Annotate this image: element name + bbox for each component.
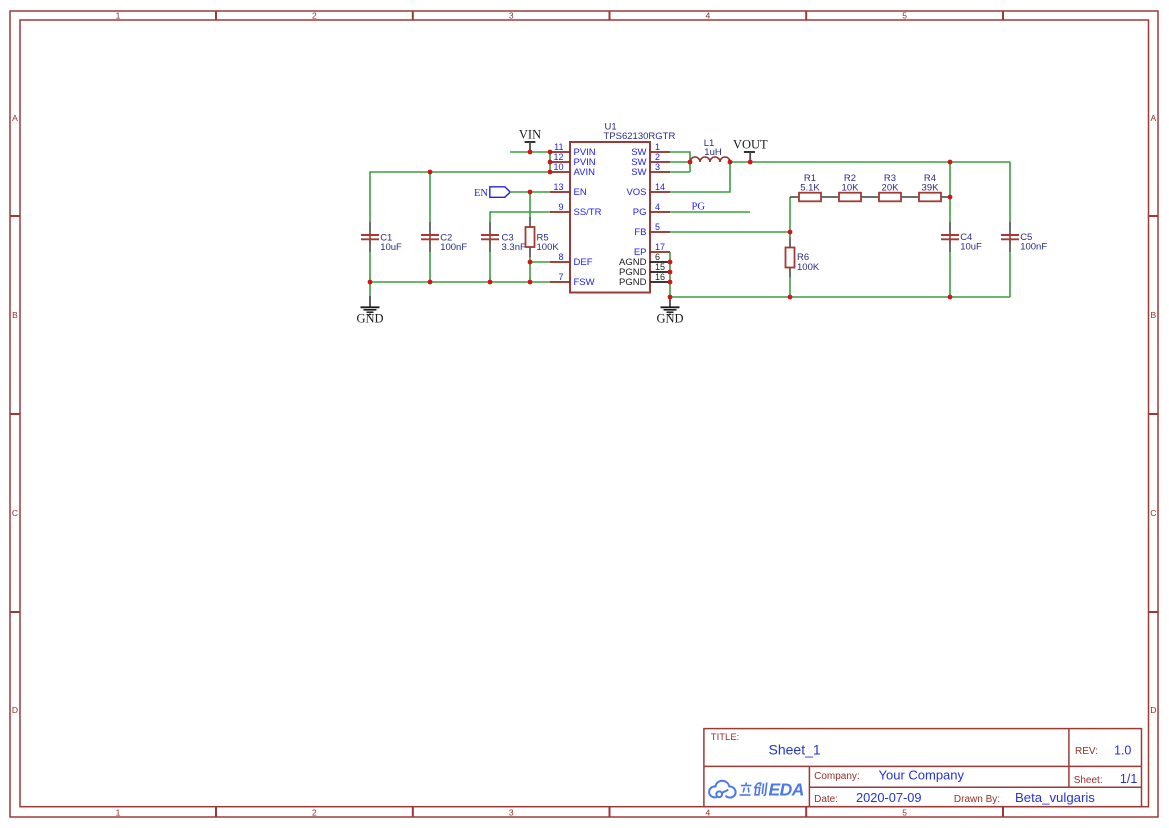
resistor R6 — [786, 232, 820, 297]
capacitor C1 — [361, 222, 402, 253]
svg-text:3: 3 — [509, 11, 514, 21]
svg-text:C: C — [12, 508, 18, 518]
svg-text:20K: 20K — [882, 183, 900, 194]
svg-text:VOS: VOS — [626, 187, 646, 198]
svg-text:12: 12 — [553, 152, 563, 162]
junction pin12 — [548, 160, 553, 165]
svg-text:GND: GND — [356, 312, 383, 326]
capacitor C5 — [1001, 222, 1047, 253]
pin 12 PVIN — [550, 152, 596, 168]
svg-text:PG: PG — [633, 207, 647, 218]
svg-text:FSW: FSW — [574, 277, 595, 288]
wire SW1 to L1 — [670, 152, 690, 172]
svg-text:4: 4 — [706, 11, 711, 21]
svg-text:2: 2 — [312, 807, 317, 817]
svg-text:100nF: 100nF — [440, 242, 467, 253]
capacitor C4 — [941, 222, 982, 253]
svg-text:2: 2 — [655, 152, 660, 162]
wire ground bus left — [370, 281, 550, 283]
wire EN node down to R5 — [529, 192, 531, 217]
svg-text:Beta_vulgaris: Beta_vulgaris — [1015, 790, 1095, 805]
pin 3 SW — [631, 162, 670, 178]
svg-text:Sheet:: Sheet: — [1074, 775, 1103, 786]
svg-text:PGND: PGND — [619, 277, 647, 288]
svg-text:C: C — [1150, 508, 1156, 518]
wire C3 bottom — [489, 252, 491, 282]
junction PGND15 — [668, 270, 673, 275]
pin 4 PG — [633, 202, 670, 218]
svg-text:10uF: 10uF — [380, 242, 402, 253]
svg-text:Company:: Company: — [814, 771, 860, 782]
junction pin11 — [548, 150, 553, 155]
junction SW tie — [688, 160, 693, 165]
svg-text:GND: GND — [656, 311, 683, 325]
svg-text:EN: EN — [574, 187, 587, 198]
svg-text:100nF: 100nF — [1020, 242, 1047, 253]
junction C2 top — [428, 170, 433, 175]
net flag VIN — [519, 128, 541, 152]
junction C3 bus — [488, 280, 493, 285]
pin 6 AGND — [619, 252, 670, 268]
junction FB node — [788, 230, 793, 235]
junction pin10 — [548, 170, 553, 175]
wire FB — [670, 231, 790, 233]
wire SS/TR row — [490, 212, 550, 222]
pin 11 PVIN — [550, 142, 596, 158]
svg-text:15: 15 — [655, 262, 665, 272]
logo cloud — [709, 781, 736, 798]
svg-text:Your Company: Your Company — [879, 768, 965, 783]
wire AVIN row — [370, 172, 550, 222]
IC U1 TPS62130RGTR — [570, 122, 675, 293]
pin 1 SW — [631, 142, 670, 158]
svg-text:3: 3 — [655, 162, 660, 172]
svg-text:5: 5 — [902, 11, 907, 21]
capacitor C2 — [421, 222, 467, 253]
svg-text:3: 3 — [509, 807, 514, 817]
junction PGND16 — [668, 280, 673, 285]
junction L1 out — [728, 160, 733, 165]
ground GND right — [656, 297, 683, 325]
ground GND left — [356, 282, 383, 326]
svg-text:100K: 100K — [797, 262, 820, 273]
svg-text:A: A — [1150, 113, 1156, 123]
wire VIN to pin 11 — [510, 151, 550, 153]
svg-text:7: 7 — [558, 272, 563, 282]
resistor R5 — [526, 217, 560, 257]
svg-text:REV:: REV: — [1075, 746, 1098, 757]
svg-text:1.0: 1.0 — [1114, 743, 1131, 757]
wire C2 bottom — [429, 252, 431, 282]
svg-text:Drawn By:: Drawn By: — [954, 794, 1000, 805]
junction EN node — [528, 190, 533, 195]
junction C1 bus — [368, 280, 373, 285]
wire R divider left vertical — [789, 197, 791, 232]
svg-text:DEF: DEF — [574, 257, 593, 268]
svg-text:3.3nF: 3.3nF — [502, 242, 526, 253]
svg-text:1: 1 — [116, 11, 121, 21]
junction C4 bus — [948, 295, 953, 300]
pin 15 PGND — [619, 262, 670, 278]
svg-text:SW: SW — [631, 167, 646, 178]
pin 2 SW — [631, 152, 670, 168]
svg-text:TITLE:: TITLE: — [711, 732, 740, 743]
wire SW3 — [670, 171, 690, 173]
svg-text:1uH: 1uH — [704, 147, 722, 158]
wire EN to pin 13 — [510, 191, 550, 193]
resistor R3 — [870, 173, 910, 202]
pin 9 SS/TR — [550, 202, 602, 218]
junction right gnd — [668, 295, 673, 300]
svg-text:4: 4 — [706, 807, 711, 817]
wire net PG — [670, 211, 750, 213]
svg-text:16: 16 — [655, 272, 665, 282]
svg-text:A: A — [12, 113, 18, 123]
net port EN — [474, 187, 510, 199]
svg-text:8: 8 — [558, 252, 563, 262]
pin 7 FSW — [550, 272, 595, 288]
wire VOS to L1 output — [670, 162, 730, 192]
svg-text:10K: 10K — [842, 183, 860, 194]
svg-text:1: 1 — [655, 142, 660, 152]
junction rail C4 — [948, 160, 953, 165]
svg-text:VOUT: VOUT — [733, 137, 768, 151]
svg-text:10uF: 10uF — [960, 242, 982, 253]
svg-text:B: B — [12, 310, 18, 320]
resistor R4 — [910, 173, 950, 202]
wire R5 bottom to bus — [529, 257, 531, 282]
svg-text:EN: EN — [474, 188, 488, 199]
logo text — [740, 780, 804, 800]
svg-text:5: 5 — [902, 807, 907, 817]
svg-text:TPS62130RGTR: TPS62130RGTR — [604, 131, 676, 142]
junction R6 bus — [788, 295, 793, 300]
svg-text:FB: FB — [634, 227, 646, 238]
svg-text:11: 11 — [554, 142, 563, 152]
svg-text:14: 14 — [655, 182, 665, 192]
net flag VOUT — [733, 137, 768, 162]
wire DEF — [530, 261, 550, 263]
capacitor C3 — [481, 222, 526, 253]
svg-text:2: 2 — [312, 11, 317, 21]
svg-text:D: D — [1150, 705, 1156, 715]
svg-text:B: B — [1150, 310, 1156, 320]
pin 16 PGND — [619, 272, 670, 288]
svg-text:1: 1 — [116, 807, 121, 817]
svg-text:6: 6 — [655, 252, 660, 262]
wire EP/AGND/PGND down — [669, 252, 671, 297]
pin 10 AVIN — [550, 162, 595, 178]
svg-text:VIN: VIN — [519, 128, 541, 142]
junction VOUT — [748, 160, 753, 165]
resistor R1 — [790, 173, 830, 202]
svg-text:5.1K: 5.1K — [800, 183, 820, 194]
svg-text:39K: 39K — [922, 183, 940, 194]
svg-text:AVIN: AVIN — [574, 167, 596, 178]
svg-text:100K: 100K — [537, 242, 560, 253]
junction dots — [368, 150, 953, 300]
wire C4 branch — [949, 162, 951, 222]
junction AGND — [668, 260, 673, 265]
wire C5 bottom — [1009, 252, 1011, 297]
svg-text:1/1: 1/1 — [1120, 772, 1137, 786]
svg-text:9: 9 — [558, 202, 563, 212]
svg-text:Date:: Date: — [814, 794, 838, 805]
junction DEF node — [528, 260, 533, 265]
junction VIN — [528, 150, 533, 155]
wire C5 branch — [1009, 162, 1011, 222]
svg-text:10: 10 — [553, 162, 563, 172]
svg-text:SS/TR: SS/TR — [574, 207, 602, 218]
pin 5 FB — [634, 222, 670, 238]
pin 17 EP — [634, 242, 670, 258]
pin 13 EN — [550, 182, 587, 198]
wire SW2 — [670, 161, 690, 163]
resistor R2 — [830, 173, 870, 202]
svg-text:D: D — [12, 705, 18, 715]
wire C2 top — [429, 172, 431, 222]
wire pins 11-12-10 tie — [549, 152, 551, 172]
svg-text:Sheet_1: Sheet_1 — [769, 742, 821, 758]
svg-text:2020-07-09: 2020-07-09 — [856, 790, 921, 805]
inductor L1 — [690, 138, 730, 162]
junction R4 out — [948, 195, 953, 200]
svg-text:5: 5 — [655, 222, 660, 232]
wire C1 bottom — [369, 252, 371, 282]
pin 8 DEF — [550, 252, 593, 268]
wire C4 bottom — [949, 252, 951, 297]
junction C2 bus — [428, 280, 433, 285]
svg-text:EDA: EDA — [769, 780, 804, 800]
wire VOUT rail — [730, 161, 1010, 163]
pin 14 VOS — [626, 182, 670, 198]
svg-text:4: 4 — [655, 202, 660, 212]
junction R5 bus — [528, 280, 533, 285]
svg-text:13: 13 — [553, 182, 563, 192]
svg-text:17: 17 — [655, 242, 665, 252]
svg-text:PG: PG — [692, 202, 706, 213]
wire ground bus right — [670, 296, 1010, 298]
